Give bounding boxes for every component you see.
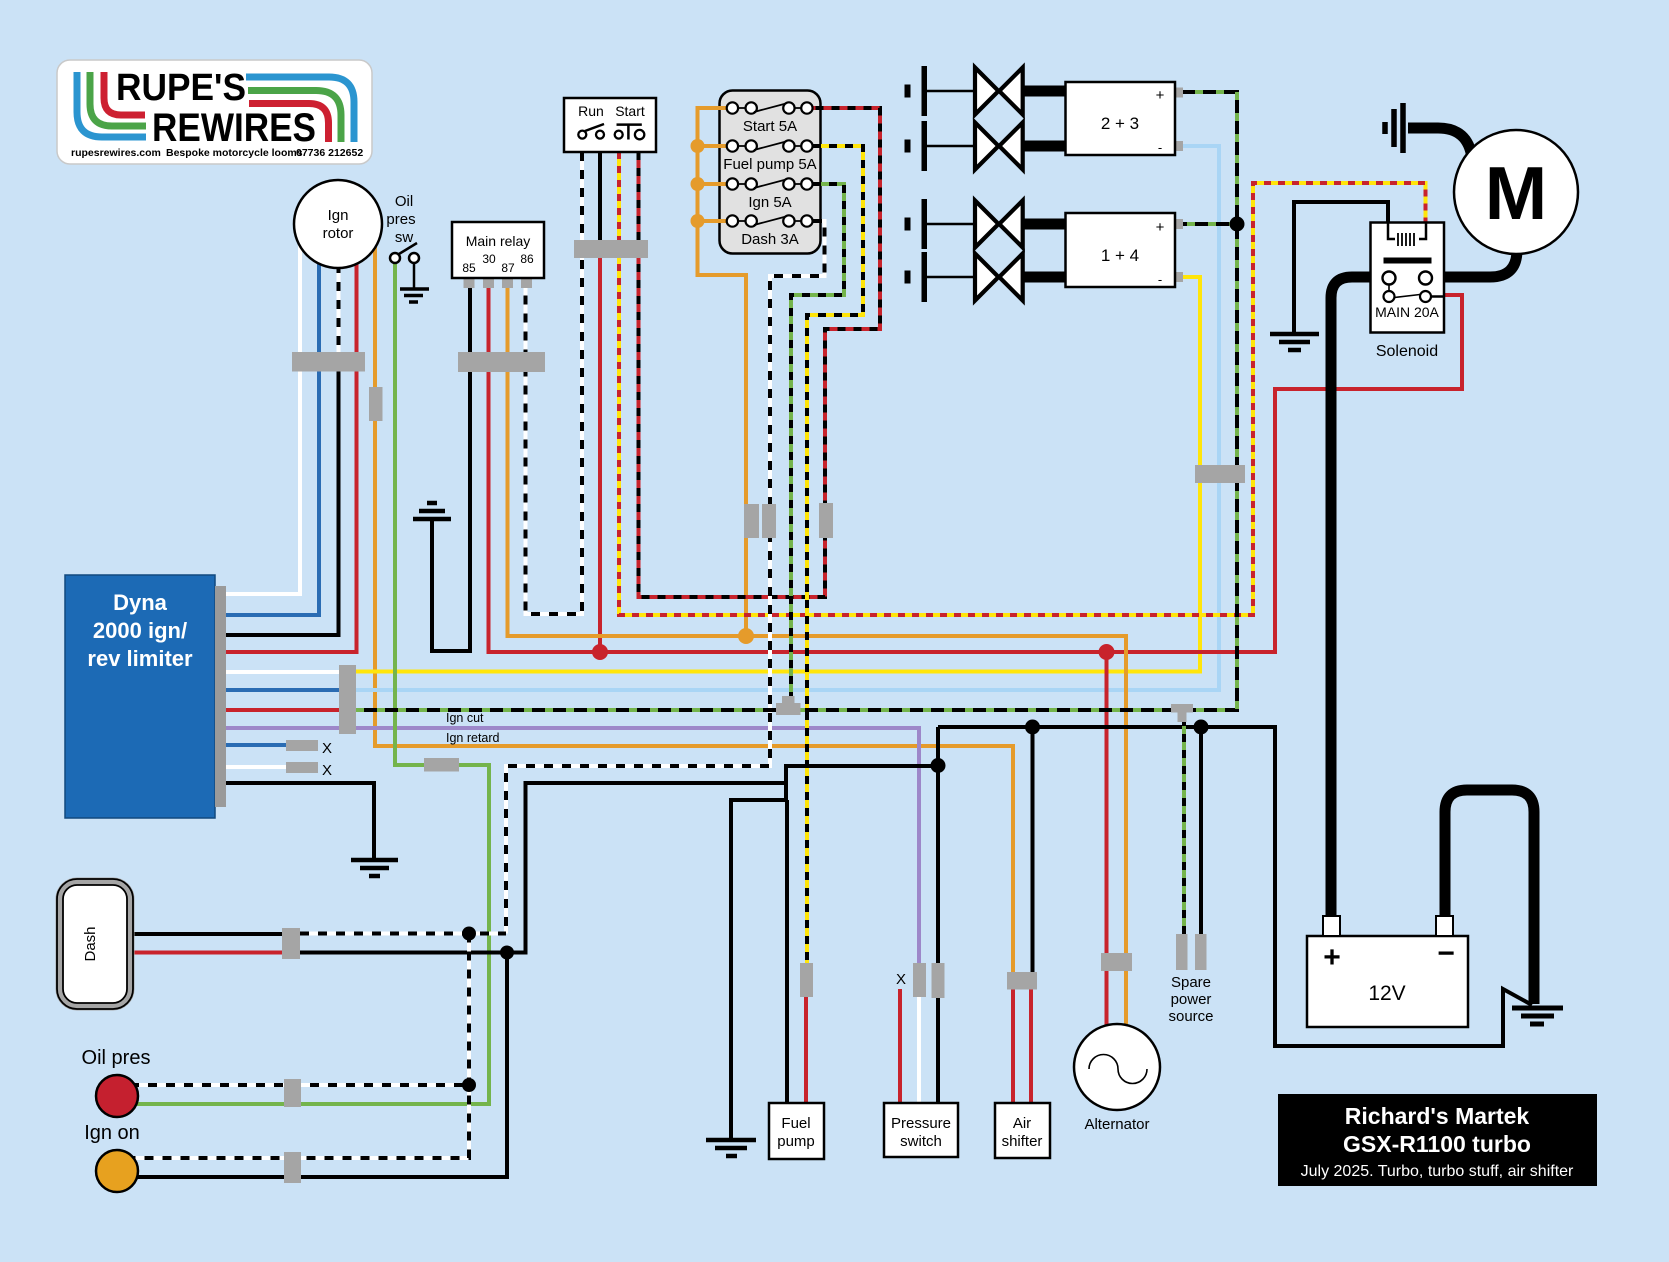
wire red Dyna ign-cut to connector: [226, 708, 339, 712]
svg-text:shifter: shifter: [1002, 1133, 1043, 1150]
connector orange rotor wire: [369, 387, 383, 421]
junction black lamp chain: [462, 927, 476, 941]
svg-text:Ign retard: Ign retard: [446, 731, 500, 745]
wire green oil pressure switch to oil lamp: [130, 262, 489, 1104]
svg-text:Oil pres: Oil pres: [82, 1047, 151, 1069]
wire light blue coil 2+3 minus to Dyna: [356, 146, 1219, 690]
wire white/black dash fuse to dash lamp: [506, 221, 825, 934]
connector pressure switch purple: [913, 963, 926, 997]
connector red/black start circuit: [819, 503, 833, 538]
wire red run switch feed: [598, 258, 602, 652]
svg-text:87: 87: [501, 261, 515, 275]
oil pressure switch symbol: [386, 193, 419, 263]
svg-text:07736 212652: 07736 212652: [296, 147, 363, 159]
wire red air shifter pair: [1013, 989, 1031, 1103]
svg-text:Alternator: Alternator: [1084, 1116, 1149, 1133]
ignition coil 2+3: [1066, 82, 1176, 155]
svg-text:Ign cut: Ign cut: [446, 711, 484, 725]
svg-text:Richard's Martek: Richard's Martek: [1345, 1103, 1530, 1129]
wire orange fuse bus: [698, 108, 747, 636]
svg-text:+: +: [1156, 87, 1165, 104]
coil 2+3 terminal minus: [1175, 141, 1183, 151]
connector pressure switch black: [932, 963, 945, 998]
fuse box body: [720, 91, 821, 254]
wire white/black lamp chain to ign on lamp: [130, 934, 469, 1159]
wire black lamp bus dash lamp to junction: [300, 766, 940, 953]
wire black ground bus to battery minus: [938, 727, 1532, 1046]
wire black Dyna to Ign rotor: [226, 350, 339, 635]
junction orange fuse row3: [691, 177, 705, 191]
svg-text:Pressure: Pressure: [891, 1115, 951, 1132]
svg-text:2000 ign/: 2000 ign/: [93, 618, 187, 643]
spark plug coil2+3 cyl2: [905, 66, 1067, 116]
svg-text:pres: pres: [386, 211, 415, 228]
junction black spare power: [1194, 720, 1209, 735]
connector fuel pump: [800, 963, 813, 997]
svg-text:July 2025. Turbo, turbo stuff,: July 2025. Turbo, turbo stuff, air shift…: [1301, 1163, 1574, 1180]
svg-text:REWIRES: REWIRES: [152, 106, 316, 150]
coil 2+3 terminal plus: [1175, 88, 1183, 98]
wire black run switch upper: [598, 152, 602, 245]
svg-text:2 + 3: 2 + 3: [1101, 114, 1139, 133]
label spare power source: [1168, 974, 1213, 1025]
battery 12V: [1307, 916, 1468, 1027]
svg-text:power: power: [1171, 991, 1212, 1008]
connector Dyna mid loom: [339, 665, 356, 734]
svg-text:Ign on: Ign on: [84, 1122, 140, 1144]
connector air shifter: [1007, 972, 1037, 990]
fuse row Start 5A: [727, 102, 813, 135]
Ign rotor: [294, 180, 382, 268]
cable starter motor to ground: [1408, 128, 1472, 158]
connector spare power 1: [1176, 934, 1188, 970]
ground battery negative: [1512, 1008, 1563, 1024]
coil 1+4 terminal plus: [1175, 219, 1183, 229]
svg-text:rupesrewires.com: rupesrewires.com: [71, 147, 161, 159]
connector orange fuse feed: [744, 504, 759, 538]
svg-text:Dyna: Dyna: [113, 590, 168, 615]
svg-text:switch: switch: [900, 1133, 942, 1150]
wire black fuel pump ground branch: [731, 782, 786, 1138]
wire yellow/black fuel pump fuse to fuel pump: [807, 146, 863, 963]
ignition coil 1+4: [1066, 213, 1176, 287]
wire red pressure switch spare X: [898, 989, 902, 1103]
fuse row Ign 5A: [727, 178, 813, 211]
connector tee ign cut to spare power: [1171, 704, 1193, 722]
connector green oil wire: [424, 758, 459, 772]
alternator: [1074, 1024, 1160, 1133]
svg-text:-: -: [1158, 272, 1162, 287]
wire black fuel pump feed: [785, 800, 789, 1103]
wire white/black oil lamp lead: [130, 1083, 469, 1087]
junction orange fuse bus: [738, 628, 754, 644]
svg-text:Air: Air: [1013, 1115, 1031, 1132]
wire orange main relay 87 to fuse bus and alternator: [508, 288, 1127, 953]
connector main relay loom: [458, 352, 545, 372]
cable solenoid to starter motor: [1444, 250, 1517, 277]
spark plug coil1+4 cyl1: [905, 199, 1067, 249]
junction red bus run switch: [592, 644, 608, 660]
svg-text:Oil: Oil: [395, 193, 413, 210]
ground main relay 85 inverted: [413, 503, 451, 519]
ground solenoid coil: [1270, 334, 1319, 350]
wire black solenoid coil to ground: [1294, 202, 1388, 332]
ground oil pressure switch: [400, 289, 429, 302]
wire red/black start fuse to start switch: [639, 108, 881, 597]
connector Dyna stub X2: [286, 762, 318, 773]
ground starter motor rotated: [1385, 103, 1403, 153]
svg-text:Run: Run: [578, 103, 604, 119]
connector white/black dash circuit: [762, 504, 776, 538]
wire green/black ign fuse to ign cut tee: [791, 184, 844, 700]
svg-text:Start 5A: Start 5A: [743, 118, 797, 135]
wire red dash lamp lower lead: [131, 951, 284, 955]
connector oil lamp: [284, 1079, 301, 1107]
svg-text:rotor: rotor: [323, 225, 354, 242]
wire dark blue Dyna to Ign rotor: [226, 259, 319, 615]
wire white Dyna to Ign rotor: [226, 242, 300, 594]
connector coil secondary loom: [1195, 465, 1245, 483]
relay terminal 30: [483, 278, 494, 288]
starter motor M: [1454, 130, 1578, 254]
svg-text:12V: 12V: [1368, 982, 1405, 1005]
wire red Dyna to Ign rotor: [226, 259, 357, 652]
junction black coil feed: [1230, 217, 1245, 232]
svg-text:Fuel: Fuel: [781, 1115, 810, 1132]
svg-text:Solenoid: Solenoid: [1376, 343, 1438, 360]
logo Rupe's Rewires sticker: [57, 60, 372, 164]
wire yellow coil 1+4 minus to Dyna: [356, 277, 1200, 672]
svg-text:+: +: [1156, 219, 1165, 236]
wire black/green spare power drop: [1182, 718, 1186, 934]
svg-text:X: X: [322, 740, 332, 757]
fuel pump: [769, 1103, 824, 1159]
svg-text:Start: Start: [615, 103, 645, 119]
wire black spare power drop: [1199, 727, 1203, 934]
spark plug coil2+3 cyl3: [905, 121, 1067, 171]
connector Dyna stub X1: [286, 740, 318, 751]
junction oil lamp chain: [462, 1078, 476, 1092]
main relay U1: [452, 222, 544, 278]
connector run-start switch loom: [574, 240, 648, 258]
wire red alternator: [1105, 652, 1109, 953]
svg-text:source: source: [1168, 1008, 1213, 1025]
svg-text:rev limiter: rev limiter: [87, 646, 193, 671]
fuse row Dash 3A: [727, 215, 813, 248]
svg-text:X: X: [322, 762, 332, 779]
svg-text:Dash: Dash: [82, 926, 99, 961]
wire black air shifter drop: [1031, 727, 1035, 972]
coil 1+4 terminal minus: [1175, 272, 1183, 282]
svg-text:1 + 4: 1 + 4: [1101, 246, 1139, 265]
svg-text:-: -: [1158, 140, 1162, 155]
wire black ign on lamp riser: [133, 953, 507, 1178]
spark plug coil1+4 cyl4: [905, 252, 1067, 302]
connector tee ign fuse to ign cut: [776, 696, 801, 715]
svg-text:Ign: Ign: [328, 207, 349, 224]
ground Dyna: [351, 783, 398, 876]
connector spare power 2: [1195, 934, 1207, 970]
wire black pressure switch: [936, 727, 940, 963]
wire orange alternator below connector: [1124, 971, 1128, 1030]
wire black/green coil 1+4 plus branch: [1183, 222, 1237, 226]
wire black/white run switch to relay 86: [526, 152, 583, 614]
air shifter: [995, 1103, 1050, 1158]
svg-text:X: X: [896, 971, 906, 988]
relay terminal 86: [521, 278, 532, 288]
svg-text:−: −: [1437, 937, 1455, 970]
junction black lamp bus: [500, 946, 514, 960]
wire purple Ign retard Dyna to pressure switch: [226, 728, 919, 963]
cable battery negative to frame ground: [1445, 790, 1534, 1004]
svg-text:+: +: [1323, 941, 1341, 974]
svg-text:Dash 3A: Dash 3A: [741, 231, 799, 248]
svg-text:M: M: [1485, 151, 1547, 235]
wire yellow/red start switch to solenoid coil: [619, 152, 1426, 615]
connector Ign rotor loom: [292, 352, 365, 372]
wire black dash lamp upper lead: [131, 932, 284, 936]
wire red main relay 30 to main bus: [489, 288, 1463, 652]
title block: [1278, 1094, 1597, 1186]
svg-text:85: 85: [462, 261, 476, 275]
svg-text:Main relay: Main relay: [466, 233, 531, 249]
dash indicator cluster: [57, 879, 133, 1009]
wire dark blue Dyna to connector: [226, 688, 339, 692]
connector ign on lamp: [284, 1152, 301, 1183]
wire black oil pressure switch to ground: [413, 262, 416, 288]
wire dark blue Dyna stub X: [226, 743, 286, 747]
svg-text:pump: pump: [777, 1133, 815, 1150]
connector alternator: [1101, 953, 1132, 971]
wire white/black dash lamp run: [300, 932, 506, 936]
wire red fuel pump below connector: [804, 997, 808, 1103]
relay terminal 87: [502, 278, 513, 288]
svg-text:Ign 5A: Ign 5A: [748, 194, 791, 211]
ground fuel pump: [706, 1140, 756, 1156]
wire white Dyna stub X: [226, 765, 286, 769]
wire white Dyna to connector: [226, 670, 339, 674]
svg-text:sw: sw: [395, 229, 414, 246]
svg-text:86: 86: [520, 252, 534, 266]
relay terminal 85: [464, 278, 475, 288]
wire black/white Ign rotor pickup: [337, 264, 341, 356]
cable battery positive to solenoid: [1331, 277, 1371, 918]
connector dash lamp: [282, 928, 300, 959]
svg-text:MAIN 20A: MAIN 20A: [1375, 304, 1439, 320]
lamp oil pressure: [96, 1075, 138, 1117]
junction black ground bus pressure: [931, 758, 946, 773]
junction red bus alternator: [1099, 644, 1115, 660]
wire orange fuse feed stubs: [698, 146, 728, 221]
wire black Dyna to ground: [226, 783, 374, 858]
wire black/green ign cut Dyna to coils: [356, 92, 1237, 710]
run-start switch: [564, 98, 656, 152]
junction black air shifter: [1025, 720, 1040, 735]
lamp ign on: [96, 1150, 138, 1192]
junction orange fuse row2: [691, 139, 705, 153]
svg-text:RUPE'S: RUPE'S: [116, 67, 246, 109]
svg-text:30: 30: [482, 252, 496, 266]
pressure switch: [884, 1103, 958, 1157]
wire orange Ign rotor to air shifter: [375, 244, 1013, 972]
fuse row Fuel pump 5A: [723, 140, 816, 173]
svg-text:GSX-R1100 turbo: GSX-R1100 turbo: [1343, 1131, 1531, 1157]
svg-text:Fuel pump 5A: Fuel pump 5A: [723, 156, 816, 173]
svg-text:Spare: Spare: [1171, 974, 1211, 991]
Dyna 2000 ignition box: [65, 575, 226, 818]
wire black main relay 85 to ground: [432, 288, 470, 651]
solenoid with MAIN 20A fuse: [1371, 223, 1445, 333]
wire white pressure switch below connector: [917, 997, 921, 1103]
svg-text:Bespoke motorcycle looms: Bespoke motorcycle looms: [166, 147, 303, 159]
junction orange fuse row4: [691, 214, 705, 228]
